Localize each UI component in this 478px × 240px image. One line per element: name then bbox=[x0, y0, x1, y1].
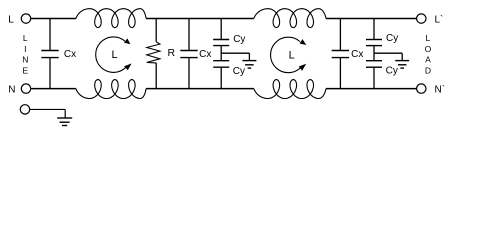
svg-text:N: N bbox=[22, 55, 28, 65]
svg-text:N`: N` bbox=[435, 84, 446, 96]
svg-text:L: L bbox=[289, 50, 295, 62]
svg-text:L: L bbox=[426, 33, 431, 43]
svg-text:E: E bbox=[22, 66, 28, 76]
svg-text:O: O bbox=[425, 44, 432, 54]
svg-text:R: R bbox=[168, 47, 176, 59]
svg-text:I: I bbox=[24, 44, 26, 54]
svg-text:Cy: Cy bbox=[233, 66, 245, 77]
svg-text:Cy: Cy bbox=[386, 66, 398, 77]
svg-text:L: L bbox=[112, 49, 118, 61]
svg-text:Cy: Cy bbox=[233, 34, 245, 45]
svg-text:Cx: Cx bbox=[64, 49, 76, 60]
svg-text:L`: L` bbox=[435, 14, 444, 26]
svg-text:Cx: Cx bbox=[351, 49, 363, 60]
svg-text:A: A bbox=[425, 55, 431, 65]
svg-text:Cy: Cy bbox=[386, 33, 398, 44]
svg-text:L: L bbox=[23, 33, 28, 43]
svg-text:L: L bbox=[8, 15, 14, 26]
svg-text:N: N bbox=[8, 85, 15, 96]
svg-text:D: D bbox=[425, 66, 431, 76]
svg-text:Cx: Cx bbox=[199, 49, 211, 60]
